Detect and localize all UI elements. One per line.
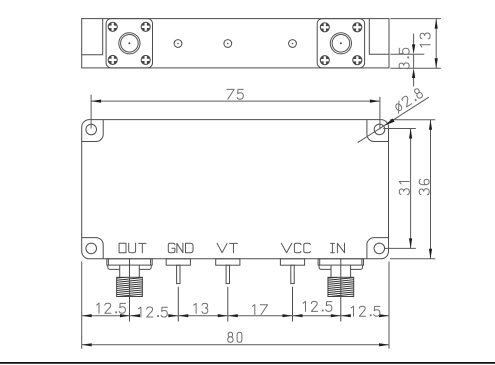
dim text 13 top rotated (420, 33, 430, 47)
top view left end step (82, 19, 103, 55)
dimension 75 extension left (90, 95, 92, 129)
VT pin (226, 265, 229, 283)
dim text diameter 2.8 rotated (393, 88, 424, 114)
OUT connector threaded barrel (117, 277, 143, 296)
arrows bottom chain at VT (218, 314, 238, 317)
dim text 36 rotated (419, 179, 429, 194)
screw bottom-left of right flange (320, 56, 329, 65)
dim text 13 bottom (194, 303, 208, 313)
IN connector left tab (319, 265, 331, 269)
dim text 80 (228, 332, 242, 342)
arrow 80 right (379, 343, 389, 346)
arrows bottom chain at GND (168, 314, 188, 317)
small hole GND (top view) (174, 40, 182, 48)
arrows bottom chain at left edge (82, 314, 92, 317)
label VCC (281, 243, 310, 252)
IN connector neck (331, 265, 351, 277)
dim text 12.5 first (97, 303, 126, 313)
arrow 80 left (82, 343, 92, 346)
arrow 13 bottom (435, 58, 438, 68)
arrows bottom chain at IN (331, 314, 351, 317)
OUT connector flange end lines (108, 259, 150, 265)
right edge extension line (388, 262, 390, 349)
SMA flange right (top view) (317, 19, 364, 68)
dimension 75 line (91, 100, 380, 102)
screw top-right of right flange (353, 23, 362, 32)
top view right end step (369, 19, 389, 55)
corner hole bottom-left (86, 243, 97, 254)
small hole VCC (top view) (289, 40, 297, 48)
dimension 3.5 line and shafts (413, 34, 415, 87)
arrow 13 top (435, 19, 438, 29)
IN connector right tab (351, 265, 363, 269)
dim text 12.5 second (139, 307, 168, 317)
arrow bottom chain right edge (379, 314, 389, 317)
corner pad bottom-left (82, 238, 104, 259)
dim text 3.5 rotated (399, 48, 409, 69)
arrow diameter 2.8 leader (384, 119, 395, 126)
dim text 31 rotated (399, 182, 409, 195)
OUT connector right tab (139, 265, 151, 269)
screw bottom-right of right flange (353, 56, 362, 65)
GND pin (177, 265, 180, 283)
dim text 12.5 third (303, 301, 332, 311)
VCC pin base (280, 259, 304, 265)
arrow 75 right (370, 100, 380, 103)
corner hole top-left (86, 124, 97, 135)
arrow 36 top (429, 120, 432, 130)
dimension 31 extensions (383, 129, 416, 249)
IN connector flange (front view) (318, 259, 363, 265)
top view body outline (82, 19, 389, 68)
small hole VT (top view) (224, 40, 232, 48)
front view body outline (82, 120, 389, 259)
IN barrel thread hatch (327, 276, 355, 299)
IN centerline / extension (340, 259, 342, 322)
dimension 75 extension right (379, 97, 381, 130)
left connector rings (top view) (119, 33, 140, 54)
VCC pin extension line (292, 287, 294, 322)
arrow 31 bottom (409, 238, 412, 248)
label VT (217, 243, 237, 252)
dimension 36 extensions (390, 120, 435, 259)
OUT connector left tab (108, 265, 120, 269)
arrows bottom chain at OUT (120, 314, 140, 317)
arrow 75 left (91, 100, 101, 103)
arrow 31 top (409, 129, 412, 139)
dim text 12.5 fourth (351, 306, 380, 316)
screw top-right of left flange (141, 22, 150, 31)
VT pin base (216, 259, 240, 265)
right connector rings (top view) (330, 33, 351, 54)
GND pin extension line (177, 287, 179, 322)
VCC pin (291, 265, 294, 283)
screw top-left of left flange (108, 22, 117, 31)
screw bottom-right of left flange (141, 55, 150, 64)
corner hole bottom-right (374, 243, 385, 254)
corner pad bottom-right (367, 238, 389, 259)
arrow 3.5 upper (outside, pointing down) (412, 44, 415, 54)
screw bottom-left of left flange (108, 55, 117, 64)
IN connector threaded barrel (328, 277, 354, 296)
dim text 17 (252, 305, 267, 315)
arrow 3.5 lower (outside, pointing up) (412, 68, 415, 78)
label GND (168, 243, 193, 252)
dimension 31 line (410, 129, 412, 249)
bottom chain dimension line (82, 315, 389, 317)
bottom frame line (0, 362, 495, 364)
OUT centerline / extension (129, 259, 131, 322)
corner pad top-right (367, 120, 389, 142)
arrows bottom chain at VCC (283, 314, 303, 317)
dimension 13 extensions (390, 19, 441, 69)
corner pad top-left (82, 120, 104, 142)
dimension 80 line (82, 344, 389, 346)
OUT barrel thread hatch (116, 276, 144, 299)
IN connector flange end lines (320, 259, 362, 265)
VT pin extension line (227, 287, 229, 322)
dimension 13 line (top view) (435, 19, 437, 69)
left edge extension line (81, 262, 83, 349)
arrow 36 bottom (429, 249, 432, 259)
GND pin base (166, 259, 190, 265)
screw top-left of right flange (320, 23, 329, 32)
SMA flange left (top view) (106, 19, 152, 68)
OUT connector neck (120, 265, 140, 277)
corner hole top-right (374, 124, 385, 135)
dimension 3.5 step extension (390, 53, 424, 55)
dimension 36 line (430, 120, 432, 259)
dim text 75 (227, 89, 243, 99)
diameter 2.8 leader line (358, 97, 429, 142)
label IN (331, 243, 345, 252)
OUT connector flange (front view) (107, 259, 152, 265)
label OUT (119, 243, 146, 252)
